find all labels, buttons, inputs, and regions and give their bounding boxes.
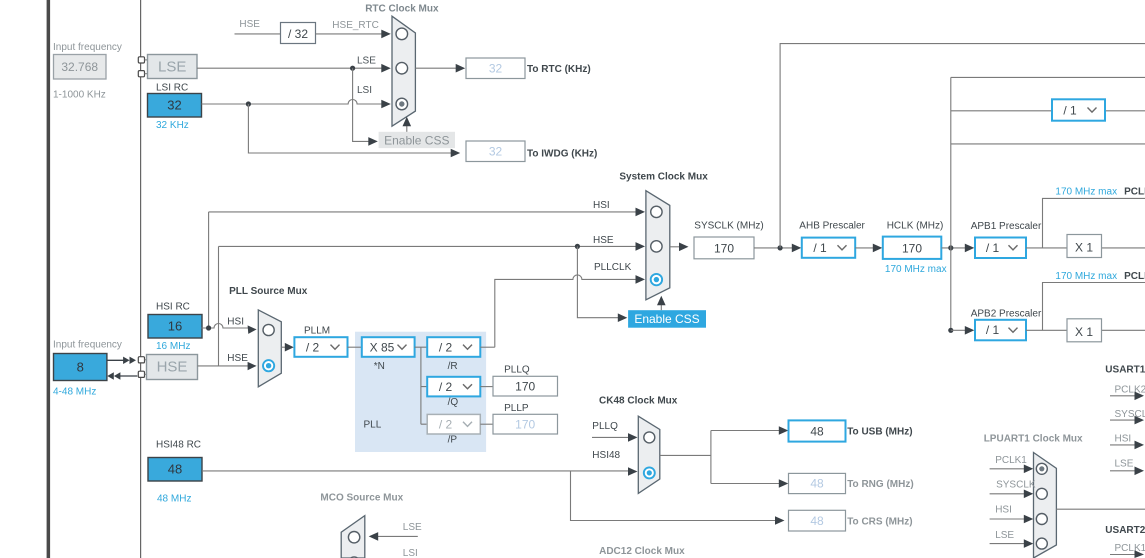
svg-text:/ 1: / 1 bbox=[986, 241, 1000, 255]
wire top rail 3 bbox=[951, 143, 1145, 145]
dropdown AHB Prescaler /1 bbox=[802, 238, 855, 258]
wire HSI RC to PLL mux (hop over HSE riser) bbox=[202, 324, 249, 328]
svg-text:48: 48 bbox=[810, 477, 824, 491]
svg-text:Enable CSS: Enable CSS bbox=[634, 312, 699, 326]
multiplier box X1 (apb2) bbox=[1067, 319, 1102, 342]
svg-text:To CRS (MHz): To CRS (MHz) bbox=[847, 516, 912, 527]
svg-text:PCLK1: PCLK1 bbox=[1115, 543, 1145, 554]
value box To USB 48 bbox=[789, 420, 846, 441]
svg-text:HSE: HSE bbox=[239, 19, 260, 30]
left panel edge bar bbox=[47, 0, 51, 558]
svg-text:/R: /R bbox=[448, 361, 458, 372]
svg-text:LSE: LSE bbox=[403, 522, 422, 533]
junction LSI iwdg bbox=[246, 101, 251, 106]
svg-text:PLLQ: PLLQ bbox=[504, 364, 530, 375]
button Enable CSS (rtc, gray) bbox=[379, 132, 455, 148]
svg-text:1-1000 KHz: 1-1000 KHz bbox=[53, 90, 106, 101]
svg-text:170: 170 bbox=[902, 241, 922, 255]
svg-text:LSI: LSI bbox=[357, 85, 372, 96]
svg-text:/ 2: / 2 bbox=[439, 380, 453, 394]
svg-text:HSE_RTC: HSE_RTC bbox=[332, 20, 379, 31]
svg-text:4-48 MHz: 4-48 MHz bbox=[53, 387, 96, 398]
wire PLLM to N bbox=[348, 346, 362, 348]
wire HSE pin to 8 box (left arrows) bbox=[120, 375, 137, 377]
svg-text:170 MHz max: 170 MHz max bbox=[1055, 271, 1117, 282]
svg-text:APB1 Prescaler: APB1 Prescaler bbox=[971, 221, 1042, 232]
wire system mux to SYSCLK box bbox=[670, 246, 680, 248]
svg-text:PLLQ: PLLQ bbox=[592, 421, 618, 432]
svg-text:LSI: LSI bbox=[403, 548, 418, 558]
dropdown APB2 Prescaler /1 bbox=[975, 320, 1026, 341]
value box HCLK 170 bbox=[883, 237, 942, 259]
junction HSE css bbox=[575, 244, 580, 249]
svg-text:HSE: HSE bbox=[593, 235, 614, 246]
svg-text:48: 48 bbox=[810, 425, 824, 439]
wire 8 box to HSE pin (right arrows) bbox=[107, 359, 124, 361]
svg-text:32: 32 bbox=[167, 98, 181, 113]
wire PCLK1 to LPUART mux bbox=[990, 468, 1026, 470]
wire APB1 out through X1 bbox=[1026, 247, 1067, 249]
wire HSI to LPUART mux bbox=[990, 518, 1026, 520]
wire top rail 2 bbox=[951, 110, 1145, 112]
svg-text:LPUART1 Clock Mux: LPUART1 Clock Mux bbox=[984, 434, 1083, 445]
wire SYSCLK to LPUART mux bbox=[990, 493, 1026, 495]
wire APB2 timer riser bbox=[1043, 283, 1145, 331]
wire LSE stub bbox=[1110, 470, 1136, 472]
svg-text:/Q: /Q bbox=[448, 397, 459, 408]
svg-text:System Clock Mux: System Clock Mux bbox=[619, 172, 708, 183]
svg-text:170 MHz max: 170 MHz max bbox=[1055, 186, 1117, 197]
svg-text:HSI: HSI bbox=[593, 200, 610, 211]
svg-text:HSI: HSI bbox=[1115, 433, 1132, 444]
wire pin stubs HSE bbox=[145, 359, 148, 361]
wire HSI48 to CK48 mux bbox=[202, 470, 630, 472]
wire SYSCLK stub bbox=[1110, 419, 1136, 421]
svg-text:To RTC (KHz): To RTC (KHz) bbox=[527, 64, 591, 75]
svg-text:USART1 Cl: USART1 Cl bbox=[1105, 365, 1145, 376]
svg-text:170: 170 bbox=[515, 380, 535, 394]
mux CK48 Clock Mux bbox=[638, 416, 660, 493]
svg-text:APB2 Prescaler: APB2 Prescaler bbox=[971, 309, 1042, 320]
svg-text:32.768: 32.768 bbox=[61, 60, 98, 74]
junction HCLK apb2 bbox=[948, 328, 953, 333]
svg-text:/ 1: / 1 bbox=[813, 241, 827, 255]
svg-text:HSE: HSE bbox=[227, 353, 248, 364]
wire HSI riser bbox=[208, 212, 210, 328]
svg-text:HSI: HSI bbox=[995, 504, 1012, 515]
wire N to R/Q/P tree bbox=[415, 347, 428, 424]
svg-text:32: 32 bbox=[489, 62, 503, 76]
wire HSI to system mux bbox=[209, 211, 637, 213]
value box To IWDG 32 bbox=[466, 141, 525, 162]
svg-text:ADC12 Clock Mux: ADC12 Clock Mux bbox=[599, 546, 685, 557]
value box SYSCLK 170 bbox=[694, 237, 754, 259]
mux RTC Clock Mux bbox=[392, 16, 415, 126]
value box PLLQ 170 bbox=[493, 376, 558, 396]
svg-text:HCLK (MHz): HCLK (MHz) bbox=[887, 220, 944, 231]
wire AHB to HCLK box bbox=[855, 247, 874, 249]
svg-text:MCO Source Mux: MCO Source Mux bbox=[320, 493, 403, 504]
svg-text:PLL: PLL bbox=[364, 420, 382, 431]
oscillator box LSE bbox=[148, 55, 198, 79]
wire Enable CSS up-arrow to RTC mux bbox=[406, 125, 408, 132]
wire HSI48 branch to CRS bbox=[571, 471, 777, 521]
button Enable CSS (sys, blue) bbox=[628, 310, 706, 328]
wire HCLK to APB2 arrow bbox=[951, 329, 967, 331]
wire Enable CSS up-arrow to system mux bbox=[660, 304, 662, 311]
mux LPUART1 Clock Mux bbox=[1034, 453, 1057, 558]
junction HSI bbox=[206, 325, 211, 330]
wire LSE junction down to Enable CSS bbox=[353, 68, 370, 141]
wire LPUART mux out bbox=[1056, 508, 1145, 510]
svg-text:LSE: LSE bbox=[995, 530, 1014, 541]
svg-text:/ 1: / 1 bbox=[1063, 104, 1077, 118]
dropdown PLLM /2 bbox=[294, 337, 347, 357]
svg-text:/ 1: / 1 bbox=[986, 323, 1000, 337]
svg-text:PCLK2: PCLK2 bbox=[1115, 385, 1145, 396]
wire LSI box to RTC mux (hop over css line) bbox=[202, 100, 383, 105]
svg-text:8: 8 bbox=[77, 360, 84, 375]
multiplier box X1 (apb1) bbox=[1067, 235, 1102, 258]
svg-text:AHB Prescaler: AHB Prescaler bbox=[799, 220, 865, 231]
svg-text:LSE: LSE bbox=[1115, 458, 1134, 469]
svg-text:HSI48 RC: HSI48 RC bbox=[156, 440, 201, 451]
pin square LSE bottom bbox=[138, 71, 144, 77]
svg-text:Input frequency: Input frequency bbox=[53, 340, 122, 351]
wire PCLK2 stub bbox=[1110, 395, 1136, 397]
svg-text:Enable CSS: Enable CSS bbox=[384, 133, 449, 147]
svg-text:SYSCLK (MHz): SYSCLK (MHz) bbox=[694, 220, 763, 231]
wire HSE to system mux bbox=[219, 245, 637, 247]
svg-text:*N: *N bbox=[374, 361, 385, 372]
value box To CRS 48 bbox=[789, 510, 846, 531]
svg-text:48 MHz: 48 MHz bbox=[157, 494, 191, 505]
pin square HSE top bbox=[138, 357, 144, 363]
svg-text:X 1: X 1 bbox=[1075, 325, 1093, 339]
svg-text:PLLM: PLLM bbox=[304, 325, 330, 336]
svg-text:RTC Clock Mux: RTC Clock Mux bbox=[365, 4, 439, 15]
divider box /32 bbox=[281, 23, 316, 44]
input frequency box 8 bbox=[54, 354, 107, 381]
wire APB2 out through X1 bbox=[1026, 329, 1067, 331]
oscillator box LSI 32 bbox=[148, 94, 202, 118]
svg-text:HSI48: HSI48 bbox=[592, 450, 620, 461]
wire LSE box to RTC mux bbox=[197, 67, 382, 69]
oscillator box HSI48 48 bbox=[148, 458, 202, 482]
svg-text:/ 2: / 2 bbox=[439, 418, 453, 432]
value box PLLP 170 (disabled) bbox=[493, 414, 558, 434]
chip boundary line bbox=[140, 0, 142, 558]
svg-text:/P: /P bbox=[448, 434, 458, 445]
wire PLL mux to PLLM bbox=[281, 346, 286, 348]
wire HSI stub bbox=[1110, 444, 1136, 446]
mux MCO Source Mux bbox=[341, 516, 365, 558]
wire LSE to MCO mux (left arrow) bbox=[378, 535, 418, 537]
svg-text:To USB (MHz): To USB (MHz) bbox=[847, 426, 912, 437]
svg-text:/ 2: / 2 bbox=[306, 340, 320, 354]
svg-text:48: 48 bbox=[810, 514, 824, 528]
dropdown APB1 Prescaler /1 bbox=[975, 238, 1026, 259]
wire APB1 timer riser bbox=[1043, 198, 1145, 248]
wire SYSCLK riser to top rail bbox=[780, 44, 1145, 248]
value box To RTC 32 bbox=[466, 58, 525, 79]
svg-text:LSE: LSE bbox=[357, 56, 376, 67]
input frequency box 32.768 bbox=[54, 55, 107, 80]
svg-text:X 1: X 1 bbox=[1075, 241, 1093, 255]
wire pin stubs LSE bbox=[145, 59, 149, 61]
wire top rail 1 bbox=[951, 76, 1145, 78]
wire HCLK to APB1 bbox=[942, 247, 967, 249]
wire PLLCLK to system mux (hop over css line) bbox=[495, 275, 637, 347]
value box To RNG 48 bbox=[789, 473, 846, 493]
wire HSE box to PLL mux bbox=[198, 365, 250, 367]
svg-text:32: 32 bbox=[489, 145, 503, 159]
svg-text:170 MHz max: 170 MHz max bbox=[885, 264, 947, 275]
svg-text:/ 32: / 32 bbox=[288, 27, 308, 41]
wire RTC mux to RTC value box bbox=[415, 67, 457, 69]
wire CK48 mux out split bbox=[660, 431, 781, 484]
svg-text:16 MHz: 16 MHz bbox=[156, 341, 190, 352]
svg-text:PLLP: PLLP bbox=[504, 403, 529, 414]
svg-text:HSE: HSE bbox=[157, 359, 188, 376]
svg-text:USART2 Cl: USART2 Cl bbox=[1105, 525, 1145, 536]
svg-text:X 85: X 85 bbox=[370, 340, 395, 354]
wire PCLK1 stub (usart2) bbox=[1110, 554, 1136, 556]
dropdown PLL N X85 bbox=[362, 337, 415, 357]
junction HCLK rail bbox=[948, 245, 953, 250]
svg-text:PCLK1: PCLK1 bbox=[1124, 186, 1145, 197]
panel PLL (light blue) bbox=[355, 332, 486, 452]
svg-text:PLLCLK: PLLCLK bbox=[594, 262, 632, 273]
dropdown PLL R /2 bbox=[427, 337, 480, 357]
svg-text:48: 48 bbox=[168, 462, 182, 477]
wire HCLK rail vertical bbox=[950, 77, 952, 330]
oscillator box HSI 16 bbox=[148, 315, 202, 339]
dropdown PLL Q /2 bbox=[427, 377, 480, 397]
junction LSE css bbox=[350, 66, 355, 71]
svg-text:Input frequency: Input frequency bbox=[53, 42, 122, 53]
oscillator box HSE bbox=[147, 355, 198, 380]
dropdown Cortex timer /1 bbox=[1052, 99, 1105, 120]
wire PLLQ to CK48 mux bbox=[592, 436, 630, 438]
wire HSE junction down to Enable CSS (sys) bbox=[577, 246, 619, 317]
wire HSE to /32 divider bbox=[235, 33, 281, 35]
pin square LSE top bbox=[138, 57, 144, 63]
wire P to PLLP box bbox=[480, 423, 493, 425]
junction SYSCLK top riser bbox=[778, 245, 783, 250]
mux System Clock Mux bbox=[646, 191, 670, 300]
svg-text:HSI: HSI bbox=[227, 317, 244, 328]
svg-text:LSE: LSE bbox=[158, 59, 186, 76]
pin square HSE bottom bbox=[138, 371, 144, 377]
svg-text:170: 170 bbox=[714, 241, 734, 255]
svg-text:LSI RC: LSI RC bbox=[156, 83, 188, 94]
wire Q to PLLQ box bbox=[480, 386, 493, 388]
dropdown PLL P /2 (disabled) bbox=[427, 414, 480, 434]
svg-text:16: 16 bbox=[168, 319, 182, 334]
svg-text:To IWDG (KHz): To IWDG (KHz) bbox=[527, 149, 597, 160]
wire SYSCLK to AHB prescaler bbox=[754, 247, 794, 249]
svg-text:To RNG (MHz): To RNG (MHz) bbox=[847, 479, 913, 490]
svg-text:170: 170 bbox=[515, 418, 535, 432]
svg-text:SYSCLK: SYSCLK bbox=[996, 480, 1036, 491]
svg-text:PCLK2: PCLK2 bbox=[1124, 271, 1145, 282]
wire HSE riser bbox=[218, 246, 220, 366]
svg-text:HSI RC: HSI RC bbox=[156, 302, 190, 313]
wire LSE to LPUART mux bbox=[990, 543, 1026, 545]
svg-text:/ 2: / 2 bbox=[439, 340, 453, 354]
wire R out to PLLCLK riser bbox=[480, 346, 495, 348]
svg-text:32 KHz: 32 KHz bbox=[156, 120, 189, 131]
wire /32 to RTC mux bbox=[316, 33, 383, 35]
wire LSI junction down to IWDG bbox=[248, 104, 452, 153]
svg-text:CK48 Clock Mux: CK48 Clock Mux bbox=[599, 395, 678, 406]
mux PLL Source Mux bbox=[258, 310, 281, 387]
svg-text:PLL Source Mux: PLL Source Mux bbox=[229, 286, 308, 297]
svg-text:PCLK1: PCLK1 bbox=[995, 455, 1027, 466]
svg-text:SYSCLK: SYSCLK bbox=[1115, 409, 1145, 420]
